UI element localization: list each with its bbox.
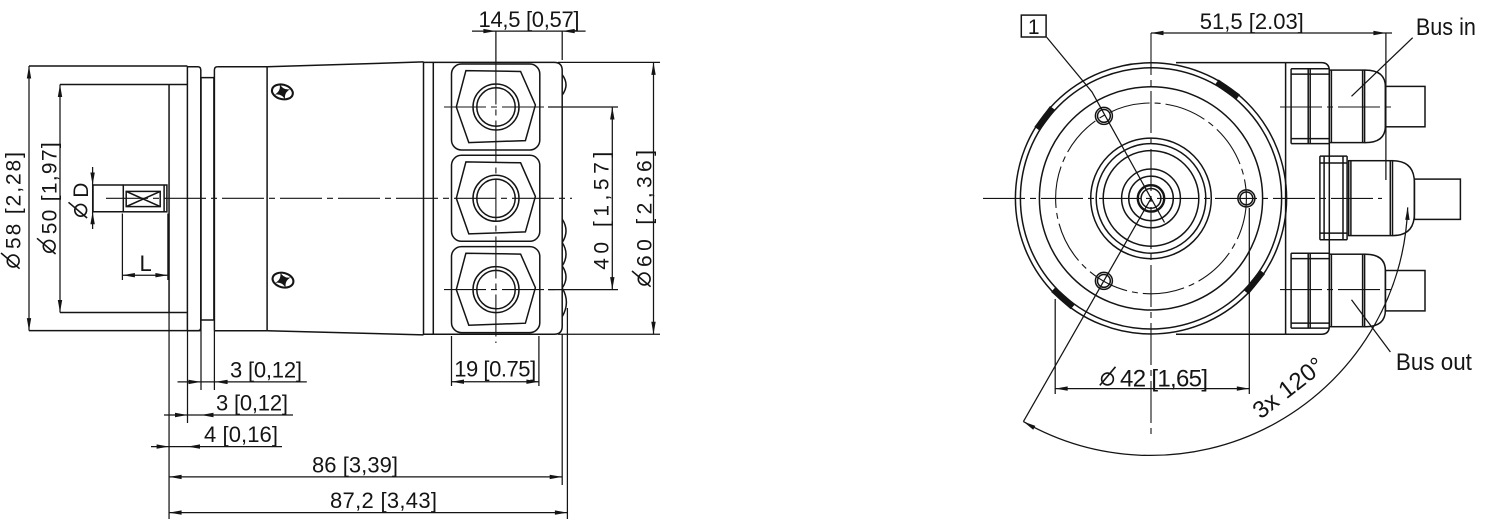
- gland horizontal centerline top: [444, 106, 555, 108]
- screw top: [270, 82, 294, 101]
- dim 40 arrows: [610, 107, 614, 120]
- label 40: [591, 152, 614, 270]
- dim L extension lines: [122, 214, 167, 281]
- outer circle cap phi60: [1015, 63, 1286, 334]
- dim 40 extension lines: [548, 107, 618, 290]
- cone/cap joint: [423, 62, 425, 335]
- dim row2 arrows: [175, 413, 188, 417]
- 120deg arc: [1023, 207, 1407, 455]
- bottom gland dome: [1365, 254, 1386, 327]
- key cross diagonals: [126, 191, 160, 206]
- flange disc (phi58, 3mm): [187, 67, 200, 331]
- dim phi42 arrows: [1055, 386, 1068, 390]
- cap face scallop 0: [562, 75, 566, 95]
- rim tick top-right: [1217, 82, 1238, 97]
- body cylinder top and bottom: [214, 67, 267, 331]
- cap outline: [424, 62, 563, 334]
- vertical centerline: [1150, 33, 1152, 437]
- shaft circle bold: [1138, 185, 1164, 211]
- face step circle 2: [1096, 144, 1206, 254]
- bottom gland stub: [1385, 271, 1425, 311]
- phi50 extension lines / collar top-bottom edges: [60, 85, 187, 313]
- gland hole middle: [473, 175, 519, 221]
- svg-text:19 [0.75]: 19 [0.75]: [454, 357, 536, 382]
- dim phi58 arrows: [27, 66, 31, 79]
- phi58 extension lines (top and bottom, to flange): [29, 66, 201, 331]
- dim 51,5 arrows: [1151, 31, 1164, 35]
- dim phi60 extension lines: [558, 62, 660, 334]
- svg-text:Bus out: Bus out: [1396, 349, 1472, 376]
- dim phi50 line: [59, 85, 61, 313]
- dim phi42 line: [1055, 388, 1249, 390]
- bottom gland boss plates: [1291, 253, 1329, 328]
- cap face scallop 1: [562, 219, 566, 242]
- bolt circle dashed: [1056, 103, 1247, 294]
- gland square boss top: [452, 64, 540, 150]
- dim 40 line: [611, 107, 613, 290]
- scallop apex extension to dims: [566, 308, 568, 519]
- dim phi42 extension lines: [1055, 208, 1249, 394]
- shaft: [93, 185, 123, 212]
- dim phi-D line: [92, 167, 94, 229]
- svg-text:1: 1: [1028, 16, 1040, 39]
- cap face scallop 3: [562, 266, 566, 288]
- key section inner edge: [163, 185, 165, 212]
- bolt hole 3: [1095, 272, 1112, 289]
- key crosshatch box: [126, 191, 160, 206]
- hub circle 2: [1129, 176, 1174, 221]
- hub circle: [1122, 169, 1181, 228]
- cone top and bottom: [267, 62, 423, 335]
- balloon 1 box: [1021, 15, 1046, 37]
- arc arrow end1: [1405, 207, 1409, 220]
- svg-text:51,5 [2.03]: 51,5 [2.03]: [1200, 9, 1304, 34]
- dim phi50 arrows: [58, 85, 62, 98]
- rim tick bottom-right: [1246, 272, 1262, 292]
- svg-text:3 [0,12]: 3 [0,12]: [216, 390, 288, 415]
- dim L arrows: [122, 273, 134, 277]
- label phi42: [1100, 365, 1208, 392]
- body cylinder/cone joint: [266, 67, 268, 331]
- gland hex nut bottom: [456, 253, 535, 325]
- balloon leader: [1047, 37, 1165, 222]
- dim row1 3[0,12] line: [178, 381, 307, 383]
- horizontal centerline: [983, 197, 1382, 199]
- dim 19 arrows: [452, 380, 465, 384]
- dim row3 arrows: [157, 444, 169, 448]
- svg-text:D: D: [70, 183, 93, 198]
- gland vertical centerline: [495, 63, 497, 344]
- svg-text:L: L: [140, 251, 152, 276]
- top flat: [1176, 62, 1286, 64]
- label phi58: [1, 152, 26, 269]
- arc arrow end2: [1023, 422, 1035, 430]
- main axis centerline: [106, 197, 572, 199]
- gland hole bottom: [473, 267, 519, 313]
- dim 14,5 line: [472, 30, 586, 32]
- dim 19 extension lines: [452, 336, 539, 386]
- cap face extension to dims: [561, 334, 563, 485]
- bottom gland hex body: [1329, 254, 1364, 327]
- svg-text:60 [2,36]: 60 [2,36]: [634, 150, 657, 267]
- collar circle phi50: [1039, 87, 1262, 310]
- dim phi58 line: [28, 66, 30, 331]
- 120deg radius line: [1023, 198, 1151, 421]
- label phi50: [37, 142, 62, 254]
- cap face scallop 4: [562, 288, 566, 317]
- cap face scallop 2: [562, 243, 566, 266]
- face step circle: [1091, 138, 1212, 259]
- top gland dome: [1365, 70, 1386, 143]
- gland hex nut top: [456, 71, 535, 143]
- screw bottom: [271, 271, 295, 290]
- block outline: [1286, 63, 1330, 335]
- shaft key section box: [123, 185, 167, 212]
- svg-text:42 [1,65]: 42 [1,65]: [1120, 365, 1208, 392]
- dim 86 arrows: [169, 475, 182, 479]
- flange front face (x=187.4) with extension: [186, 66, 188, 331]
- dim 51,5 right extension: [1385, 33, 1387, 180]
- top gland boss plates: [1291, 69, 1329, 144]
- dim 14,5 extension left: [495, 31, 497, 62]
- dim 86 line: [169, 476, 562, 478]
- gland hole top: [473, 84, 519, 130]
- dim row1 arrows: [189, 380, 202, 384]
- label phi-D: [69, 183, 94, 218]
- svg-text:40 [1,57]: 40 [1,57]: [591, 152, 614, 270]
- svg-text:87,2 [3,43]: 87,2 [3,43]: [330, 488, 437, 513]
- bottom flat: [1176, 333, 1286, 335]
- block left edge: [1285, 63, 1287, 335]
- dim 14,5 extension right: [561, 31, 563, 60]
- dim 19 line: [452, 381, 539, 383]
- dim phi60 line: [653, 62, 655, 334]
- dim phi-D arrows: [90, 173, 94, 186]
- body front face with extension: [214, 67, 217, 331]
- top gland stub: [1385, 86, 1425, 126]
- gland horizontal centerline bottom: [444, 289, 555, 291]
- dim 14,5 arrows: [483, 29, 496, 33]
- svg-text:86 [3,39]: 86 [3,39]: [312, 452, 398, 477]
- plate B (3mm): [201, 78, 214, 320]
- dim row3 4[0,16] line: [151, 446, 282, 448]
- dim 87,2 arrows: [169, 510, 182, 514]
- middle gland dome: [1393, 161, 1415, 236]
- top gland centerline: [1280, 106, 1392, 108]
- dim phi60 arrows: [651, 62, 655, 75]
- svg-text:58 [2,28]: 58 [2,28]: [3, 152, 26, 249]
- svg-text:Bus in: Bus in: [1416, 14, 1476, 41]
- middle gland stub: [1414, 179, 1460, 219]
- label 3x120: [1248, 352, 1330, 424]
- bolt hole 2: [1238, 190, 1255, 207]
- dim L line: [122, 274, 167, 276]
- gland square boss bottom: [452, 247, 540, 333]
- label phi60: [632, 150, 657, 287]
- svg-text:14,5 [0,57]: 14,5 [0,57]: [479, 7, 580, 32]
- svg-text:4 [0,16]: 4 [0,16]: [204, 422, 278, 447]
- face step circle 3: [1103, 151, 1199, 247]
- cap inner left edge: [432, 62, 434, 334]
- middle gland hex body: [1349, 161, 1393, 236]
- rim tick bottom-left: [1053, 290, 1073, 307]
- gland hex nut middle: [456, 162, 535, 234]
- middle gland boss plates: [1320, 156, 1347, 240]
- dim row2 3[0,12] line: [164, 414, 293, 416]
- Bus in leader: [1352, 38, 1413, 97]
- gland square boss middle: [452, 155, 540, 241]
- svg-text:50 [1,97]: 50 [1,97]: [39, 142, 62, 234]
- dim 51,5 line: [1151, 32, 1392, 34]
- rim tick top-left: [1037, 108, 1053, 129]
- Bus out leader: [1352, 300, 1391, 352]
- svg-text:3 [0,12]: 3 [0,12]: [230, 357, 302, 382]
- dim 87,2 line: [169, 512, 567, 514]
- collar front face (x=169) with extension to dim rows: [168, 85, 170, 313]
- top gland hex body: [1329, 70, 1364, 143]
- bolt hole 1: [1095, 107, 1112, 124]
- shaft inner circle: [1141, 189, 1161, 209]
- flange circle phi58: [1020, 68, 1281, 329]
- bottom gland centerline: [1280, 289, 1392, 291]
